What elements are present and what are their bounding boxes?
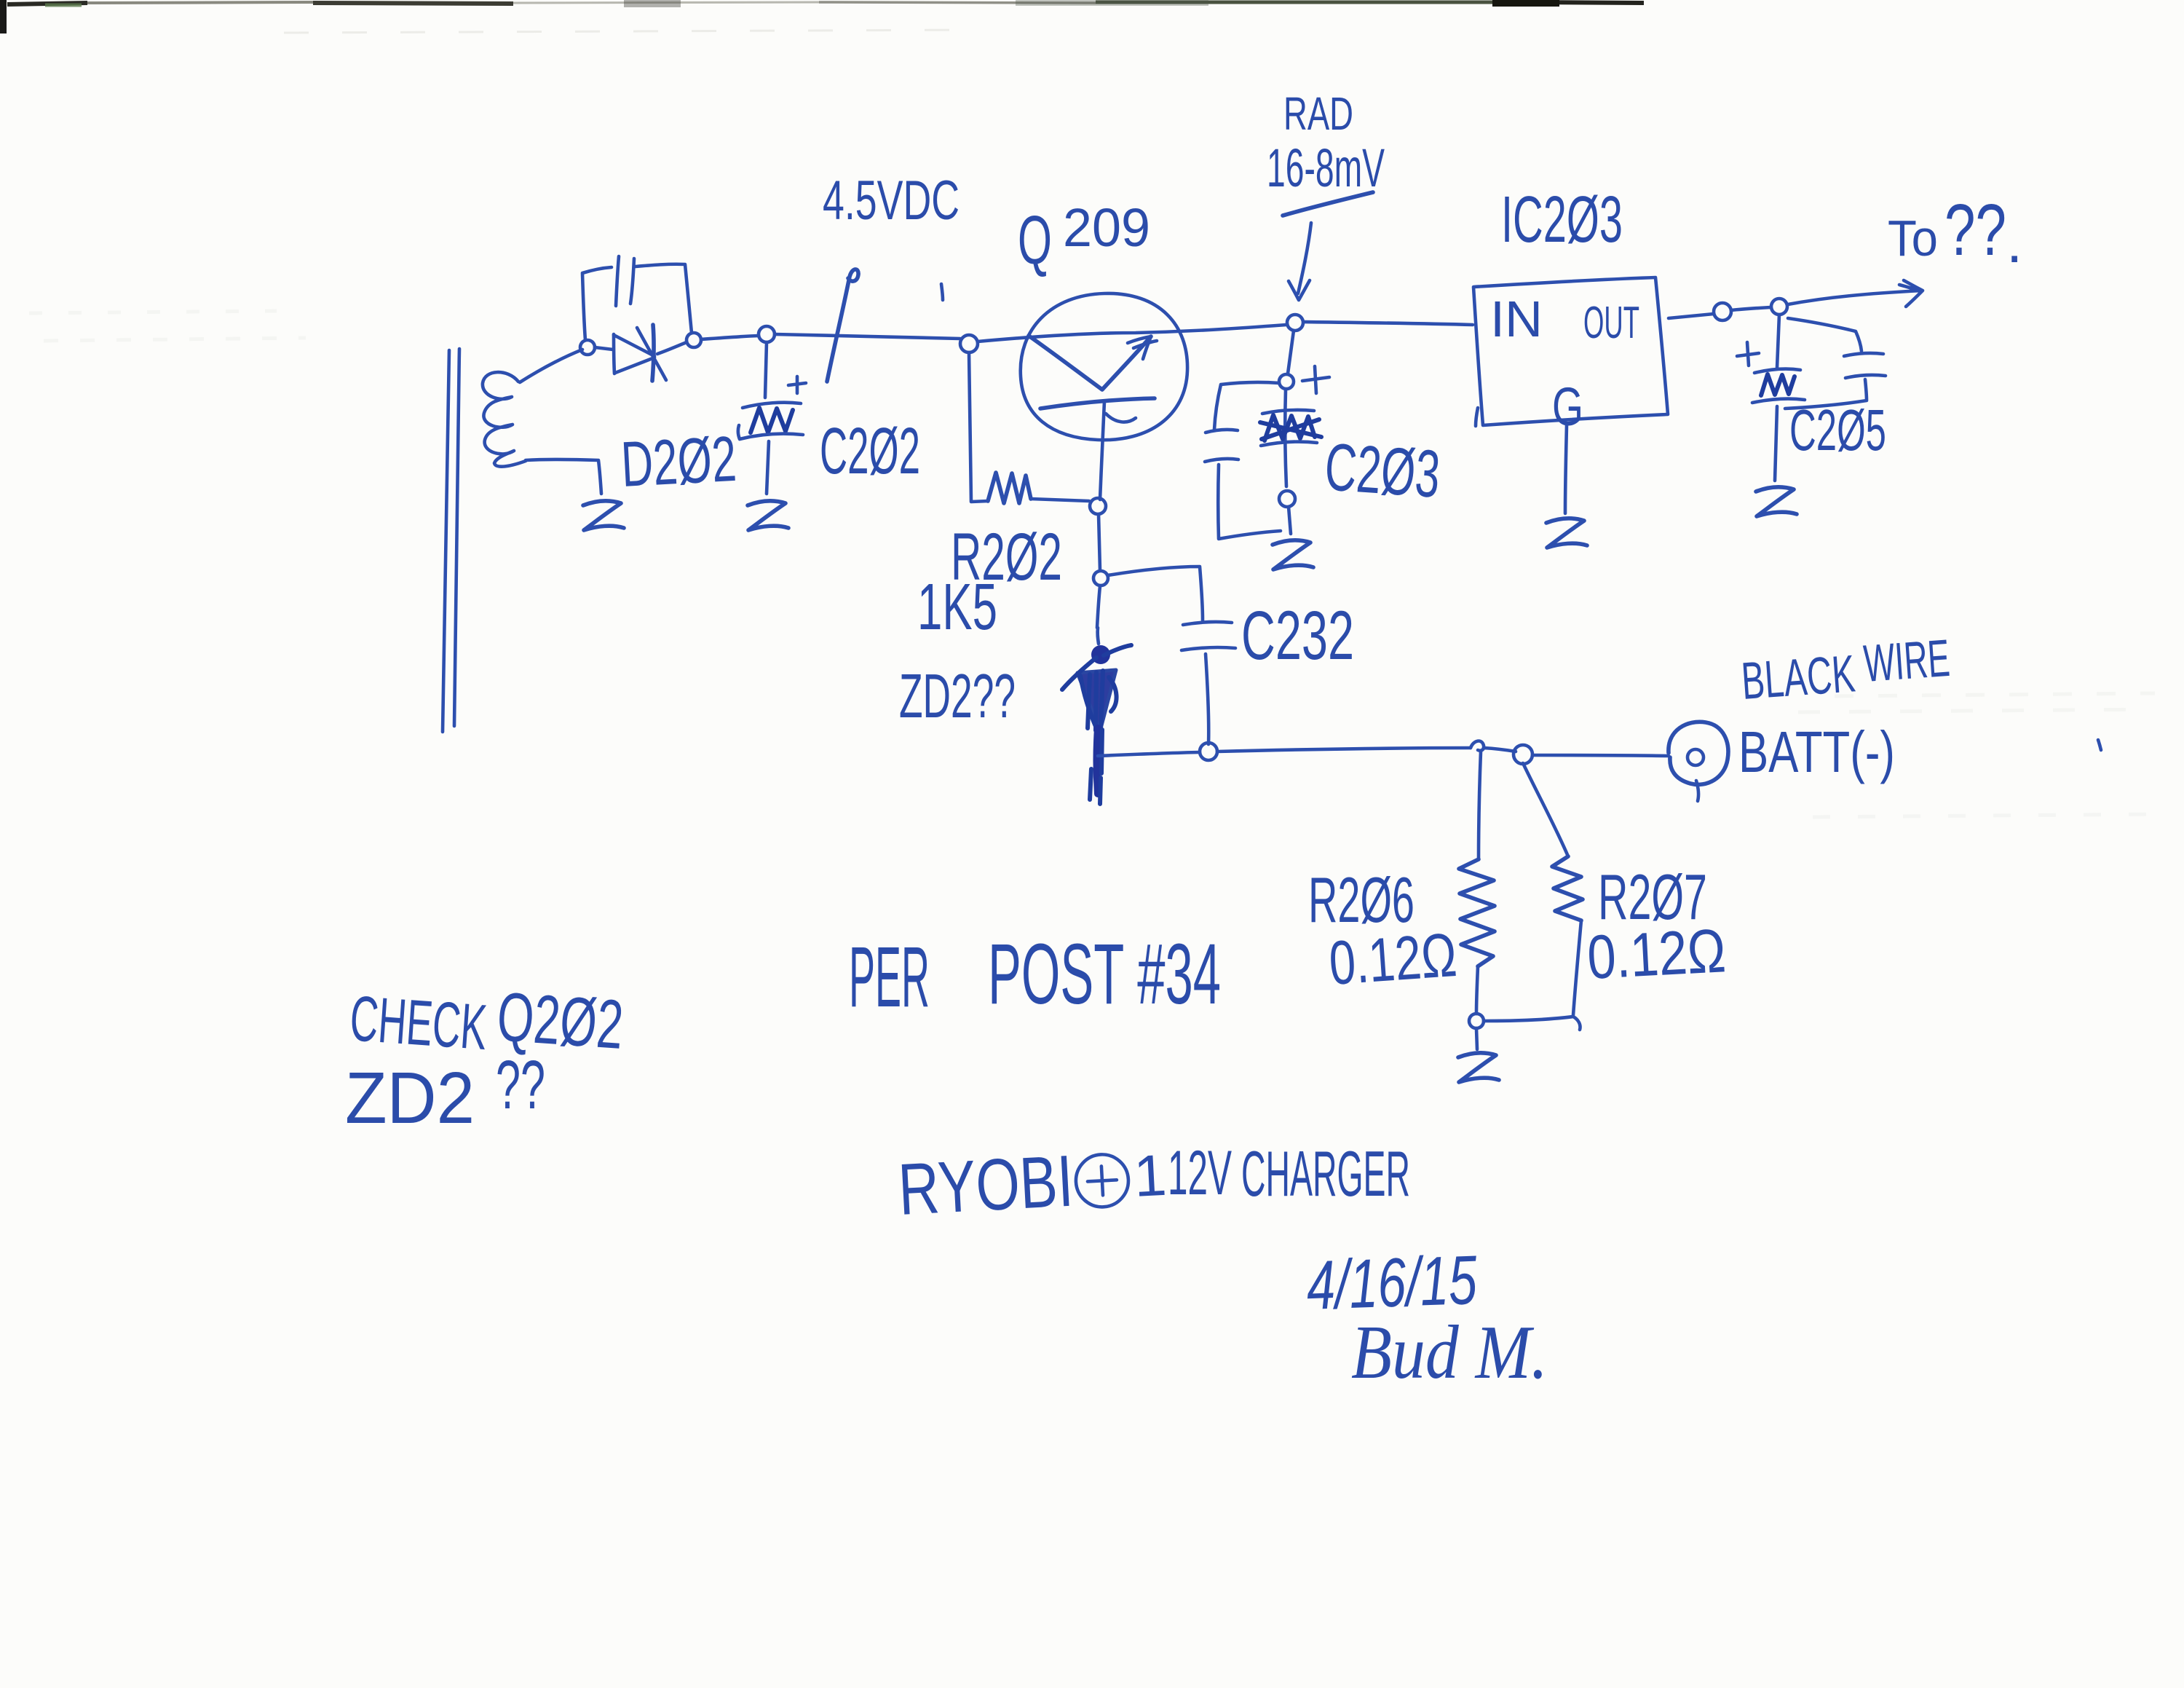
ground (IC203) (1546, 518, 1587, 548)
svg-text:CHECK: CHECK (348, 982, 489, 1063)
svg-text:Q: Q (1018, 202, 1052, 279)
svg-text:4.5VDC: 4.5VDC (823, 170, 960, 232)
svg-text:0.12Ω: 0.12Ω (1327, 920, 1459, 998)
ground (C205) (1756, 487, 1797, 516)
svg-text:PER: PER (849, 929, 930, 1025)
svg-text:IC2Ø3: IC2Ø3 (1501, 184, 1623, 256)
node C203 bottom (1279, 491, 1295, 507)
transistor Q209 circle (1021, 293, 1187, 440)
regulator IC203 box (1473, 277, 1668, 426)
wire coil bottom lead (526, 460, 601, 494)
wire down to zener (1097, 586, 1100, 628)
capacitor plates above diode (616, 256, 619, 306)
svg-text:IN: IN (1490, 291, 1543, 347)
svg-text:WIRE: WIRE (1862, 629, 1952, 693)
RAD arrow (1289, 223, 1311, 300)
svg-text:C2Ø5: C2Ø5 (1789, 398, 1886, 462)
node out 1 (1714, 303, 1731, 320)
svg-text:1K5: 1K5 (917, 571, 997, 644)
R206 tap kink (1471, 741, 1484, 751)
resistor R202 (988, 473, 1031, 503)
wire node1 to node2 (1731, 307, 1770, 310)
plus sign (1737, 342, 1759, 366)
svg-text:1: 1 (1132, 1143, 1168, 1209)
svg-text:BATT(-): BATT(-) (1738, 719, 1895, 784)
Q209 emitter arrow (1102, 336, 1151, 390)
wire: RAD node to IC203 IN (1304, 322, 1473, 325)
scanner edge artifacts (0, 0, 1644, 33)
diode D202 (595, 325, 687, 381)
wire coil top to diode node (520, 350, 582, 382)
svg-text:ZD2??: ZD2?? (899, 662, 1016, 731)
svg-text:0.12Ω: 0.12Ω (1586, 916, 1728, 993)
wire to arrow To?? (1788, 280, 1923, 307)
wire base node down (969, 352, 988, 502)
svg-text:.: . (2006, 210, 2022, 275)
capacitor across D202: left riser (582, 267, 612, 340)
svg-text:C2Ø2: C2Ø2 (820, 415, 920, 488)
wire R202 to emitter node (1031, 499, 1089, 501)
svg-text:Bud M.: Bud M. (1351, 1309, 1548, 1395)
node C232 bottom knot (1200, 743, 1217, 760)
stray pen tick (2098, 740, 2101, 750)
svg-text:??: ?? (496, 1046, 545, 1124)
node B (diode cathode) (687, 333, 701, 347)
parallel cap right of C205 (1785, 318, 1886, 409)
capacitor C202 (electrolytic) (738, 342, 806, 494)
transformer T primary core lines (443, 349, 459, 732)
svg-text:209: 209 (1063, 197, 1150, 258)
node R206 bottom (1469, 1014, 1484, 1028)
wire: base node through Q209 to RAD node (978, 325, 1286, 342)
svg-text:16-8mV: 16-8mV (1267, 138, 1385, 198)
node C232 tap (1093, 571, 1108, 585)
ground (transformer) (583, 501, 624, 530)
capacitor C205 (electrolytic) (1752, 315, 1805, 481)
node RAD tap (1287, 315, 1303, 331)
wire to BATT terminal (1532, 755, 1669, 756)
wire zener to knot (1098, 752, 1200, 756)
node C202 tap (759, 326, 775, 342)
wire: C202 node to base node (775, 334, 960, 339)
node R207 tap (1514, 745, 1532, 764)
wire to R207 node (1484, 748, 1516, 752)
4.5VDC pointer stroke (827, 269, 858, 382)
ground (C203) (1289, 507, 1291, 534)
wire knot to R206 tap (1217, 748, 1471, 752)
Q209 base bar (1029, 336, 1102, 390)
svg-text:BLACK: BLACK (1740, 644, 1857, 711)
title RYOBI +1 12V CHARGER (896, 1135, 1168, 1231)
svg-text:??: ?? (1944, 189, 2006, 271)
node A (diode anode) (580, 340, 595, 355)
svg-text:RAD: RAD (1283, 87, 1353, 140)
small tick (941, 284, 943, 300)
wire R207 bottom to node (1484, 1017, 1580, 1030)
zener diode ZD2 (scribbled) (1062, 628, 1131, 804)
svg-text:12V: 12V (1168, 1138, 1232, 1208)
svg-text:D2Ø2: D2Ø2 (620, 422, 738, 500)
node out 2 (1771, 299, 1787, 315)
svg-text:C232: C232 (1241, 597, 1354, 674)
svg-text:OUT: OUT (1583, 298, 1639, 348)
wire OUT to node (1669, 314, 1714, 318)
svg-text:POST #34: POST #34 (988, 926, 1221, 1022)
plus sign (1302, 366, 1329, 393)
capacitor right riser (636, 264, 692, 333)
transformer secondary coil (483, 372, 526, 467)
wire G to ground (1565, 425, 1567, 513)
ground (R206/R207) (1476, 1028, 1477, 1049)
capacitor C232 (1183, 622, 1232, 625)
wire RAD node down (1288, 331, 1294, 374)
resistor R207 (1523, 763, 1568, 856)
resistor R206 (1479, 752, 1481, 859)
svg-text:C2Ø3: C2Ø3 (1323, 430, 1443, 512)
wire C232 node to cap (1108, 567, 1203, 620)
wire: cathode node to C202 node (701, 336, 759, 339)
capacitor C203 (electrolytic) (1260, 390, 1321, 486)
Q209 emitter lead (1100, 401, 1104, 500)
left branch cap (1205, 382, 1281, 539)
svg-text:To: To (1888, 210, 1938, 267)
faint scan streaks (29, 311, 2155, 817)
svg-text:CHARGER: CHARGER (1241, 1137, 1410, 1210)
node emitter/R202 (1090, 498, 1106, 514)
underline (1283, 192, 1373, 216)
node Q209 base tap (960, 335, 978, 352)
ground (C202) (748, 501, 788, 530)
Q209 bottom bar (1040, 398, 1155, 409)
svg-text:ZD2: ZD2 (345, 1057, 475, 1139)
wire emitter node to C232 node (1099, 514, 1100, 570)
BATT(-) terminal (1669, 722, 1728, 801)
node C203 top (1279, 374, 1294, 389)
svg-text:RYOBI: RYOBI (896, 1140, 1075, 1231)
